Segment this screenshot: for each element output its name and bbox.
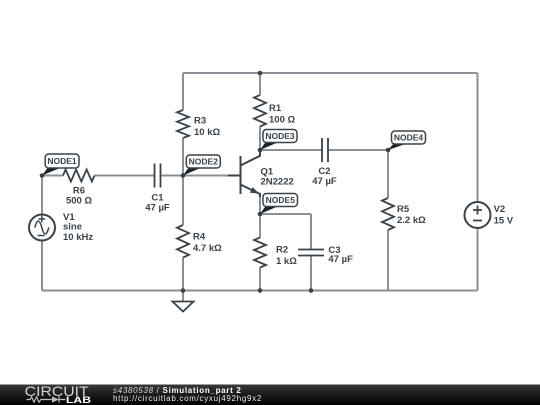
resistor R2 <box>254 238 266 268</box>
wire right rail upper <box>477 73 479 202</box>
svg-text:15 V: 15 V <box>494 215 514 226</box>
wire R5 top lead <box>387 150 389 198</box>
svg-text:V2: V2 <box>494 204 506 215</box>
resistor R4 <box>177 225 189 258</box>
voltage source V2 <box>465 202 491 228</box>
svg-text:100 Ω: 100 Ω <box>269 114 295 125</box>
wire R4 bottom lead <box>182 258 184 291</box>
svg-text:R3: R3 <box>194 115 206 126</box>
wire R1 top lead <box>259 73 261 95</box>
wire R2 bottom lead <box>259 268 261 291</box>
node B NODE2 label <box>183 155 220 176</box>
junction bottom ground <box>181 288 186 293</box>
wire node3 to C2 <box>260 149 322 151</box>
node D NODE4 label <box>388 131 426 150</box>
wire top rail <box>183 72 478 74</box>
wire node5 to C3 <box>260 213 311 215</box>
svg-text:LAB: LAB <box>66 395 91 405</box>
junction bottom C3 <box>309 288 314 293</box>
svg-text:NODE3: NODE3 <box>265 131 295 141</box>
svg-text:500 Ω: 500 Ω <box>66 195 92 206</box>
node NODE1 junction <box>40 173 45 178</box>
wire emitter to node5 <box>259 196 261 214</box>
ground <box>173 302 194 312</box>
wire C2 to node4 <box>328 149 388 151</box>
wire right rail lower <box>477 228 479 291</box>
svg-text:2.2 kΩ: 2.2 kΩ <box>397 215 426 226</box>
resistor R6 <box>63 170 95 182</box>
node A NODE1 label <box>42 154 79 176</box>
wire left rail upper <box>41 176 43 215</box>
svg-text:47 µF: 47 µF <box>312 176 337 187</box>
svg-text:NODE4: NODE4 <box>394 133 424 143</box>
svg-text:1 kΩ: 1 kΩ <box>276 256 297 267</box>
svg-text:NODE1: NODE1 <box>47 156 77 166</box>
svg-text:NODE2: NODE2 <box>189 157 219 167</box>
svg-text:R1: R1 <box>269 103 282 114</box>
node NODE3 junction <box>258 148 263 153</box>
voltage source V1 <box>29 215 55 241</box>
svg-text:4.7 kΩ: 4.7 kΩ <box>193 243 222 254</box>
node E NODE5 label <box>260 194 298 215</box>
svg-text:47 µF: 47 µF <box>145 202 170 213</box>
wire bottom rail <box>42 290 478 292</box>
svg-text:10 kHz: 10 kHz <box>63 232 93 243</box>
capacitor C3 <box>298 250 324 256</box>
junction top rail R1 <box>258 71 263 76</box>
transistor Q1 <box>228 150 260 197</box>
svg-text:R4: R4 <box>193 231 206 242</box>
svg-text:http://circuitlab.com/cyxuj492: http://circuitlab.com/cyxuj492hg9x2 <box>113 394 262 403</box>
footer logo schematic doodle <box>27 396 66 402</box>
node NODE2 junction <box>181 173 186 178</box>
resistor R5 <box>382 198 394 230</box>
wire node1 to R6 <box>42 175 63 177</box>
wire R2 top lead <box>259 214 261 238</box>
svg-text:47 µF: 47 µF <box>328 254 353 265</box>
wire R1 bottom lead <box>259 127 261 151</box>
node C NODE3 label <box>260 130 297 151</box>
capacitor C1 <box>155 164 161 188</box>
wire R5 bottom lead <box>387 230 389 291</box>
resistor R3 <box>177 110 189 138</box>
junction bottom R2 <box>258 288 263 293</box>
wire C3 top lead <box>310 214 312 250</box>
resistor R1 <box>254 95 266 127</box>
wire R6 to C1 <box>95 175 155 177</box>
svg-text:NODE5: NODE5 <box>266 195 296 205</box>
wire R4 top lead <box>182 176 184 226</box>
node NODE5 junction <box>258 212 263 217</box>
svg-text:2N2222: 2N2222 <box>261 177 294 188</box>
svg-text:R2: R2 <box>276 244 288 255</box>
svg-text:R5: R5 <box>397 204 410 215</box>
wire C3 bottom lead <box>310 256 312 291</box>
wire ground stem <box>182 291 184 302</box>
footer bar <box>0 385 540 405</box>
wire R3 bottom lead <box>182 138 184 176</box>
transistor Q1 emitter arrow <box>250 187 259 193</box>
svg-text:10 kΩ: 10 kΩ <box>194 127 220 138</box>
wire left rail lower <box>41 241 43 291</box>
wire C1 to Q1 base <box>161 175 240 177</box>
node NODE4 junction <box>386 148 391 153</box>
capacitor C2 <box>322 138 328 162</box>
wire R3 top lead <box>182 73 184 110</box>
